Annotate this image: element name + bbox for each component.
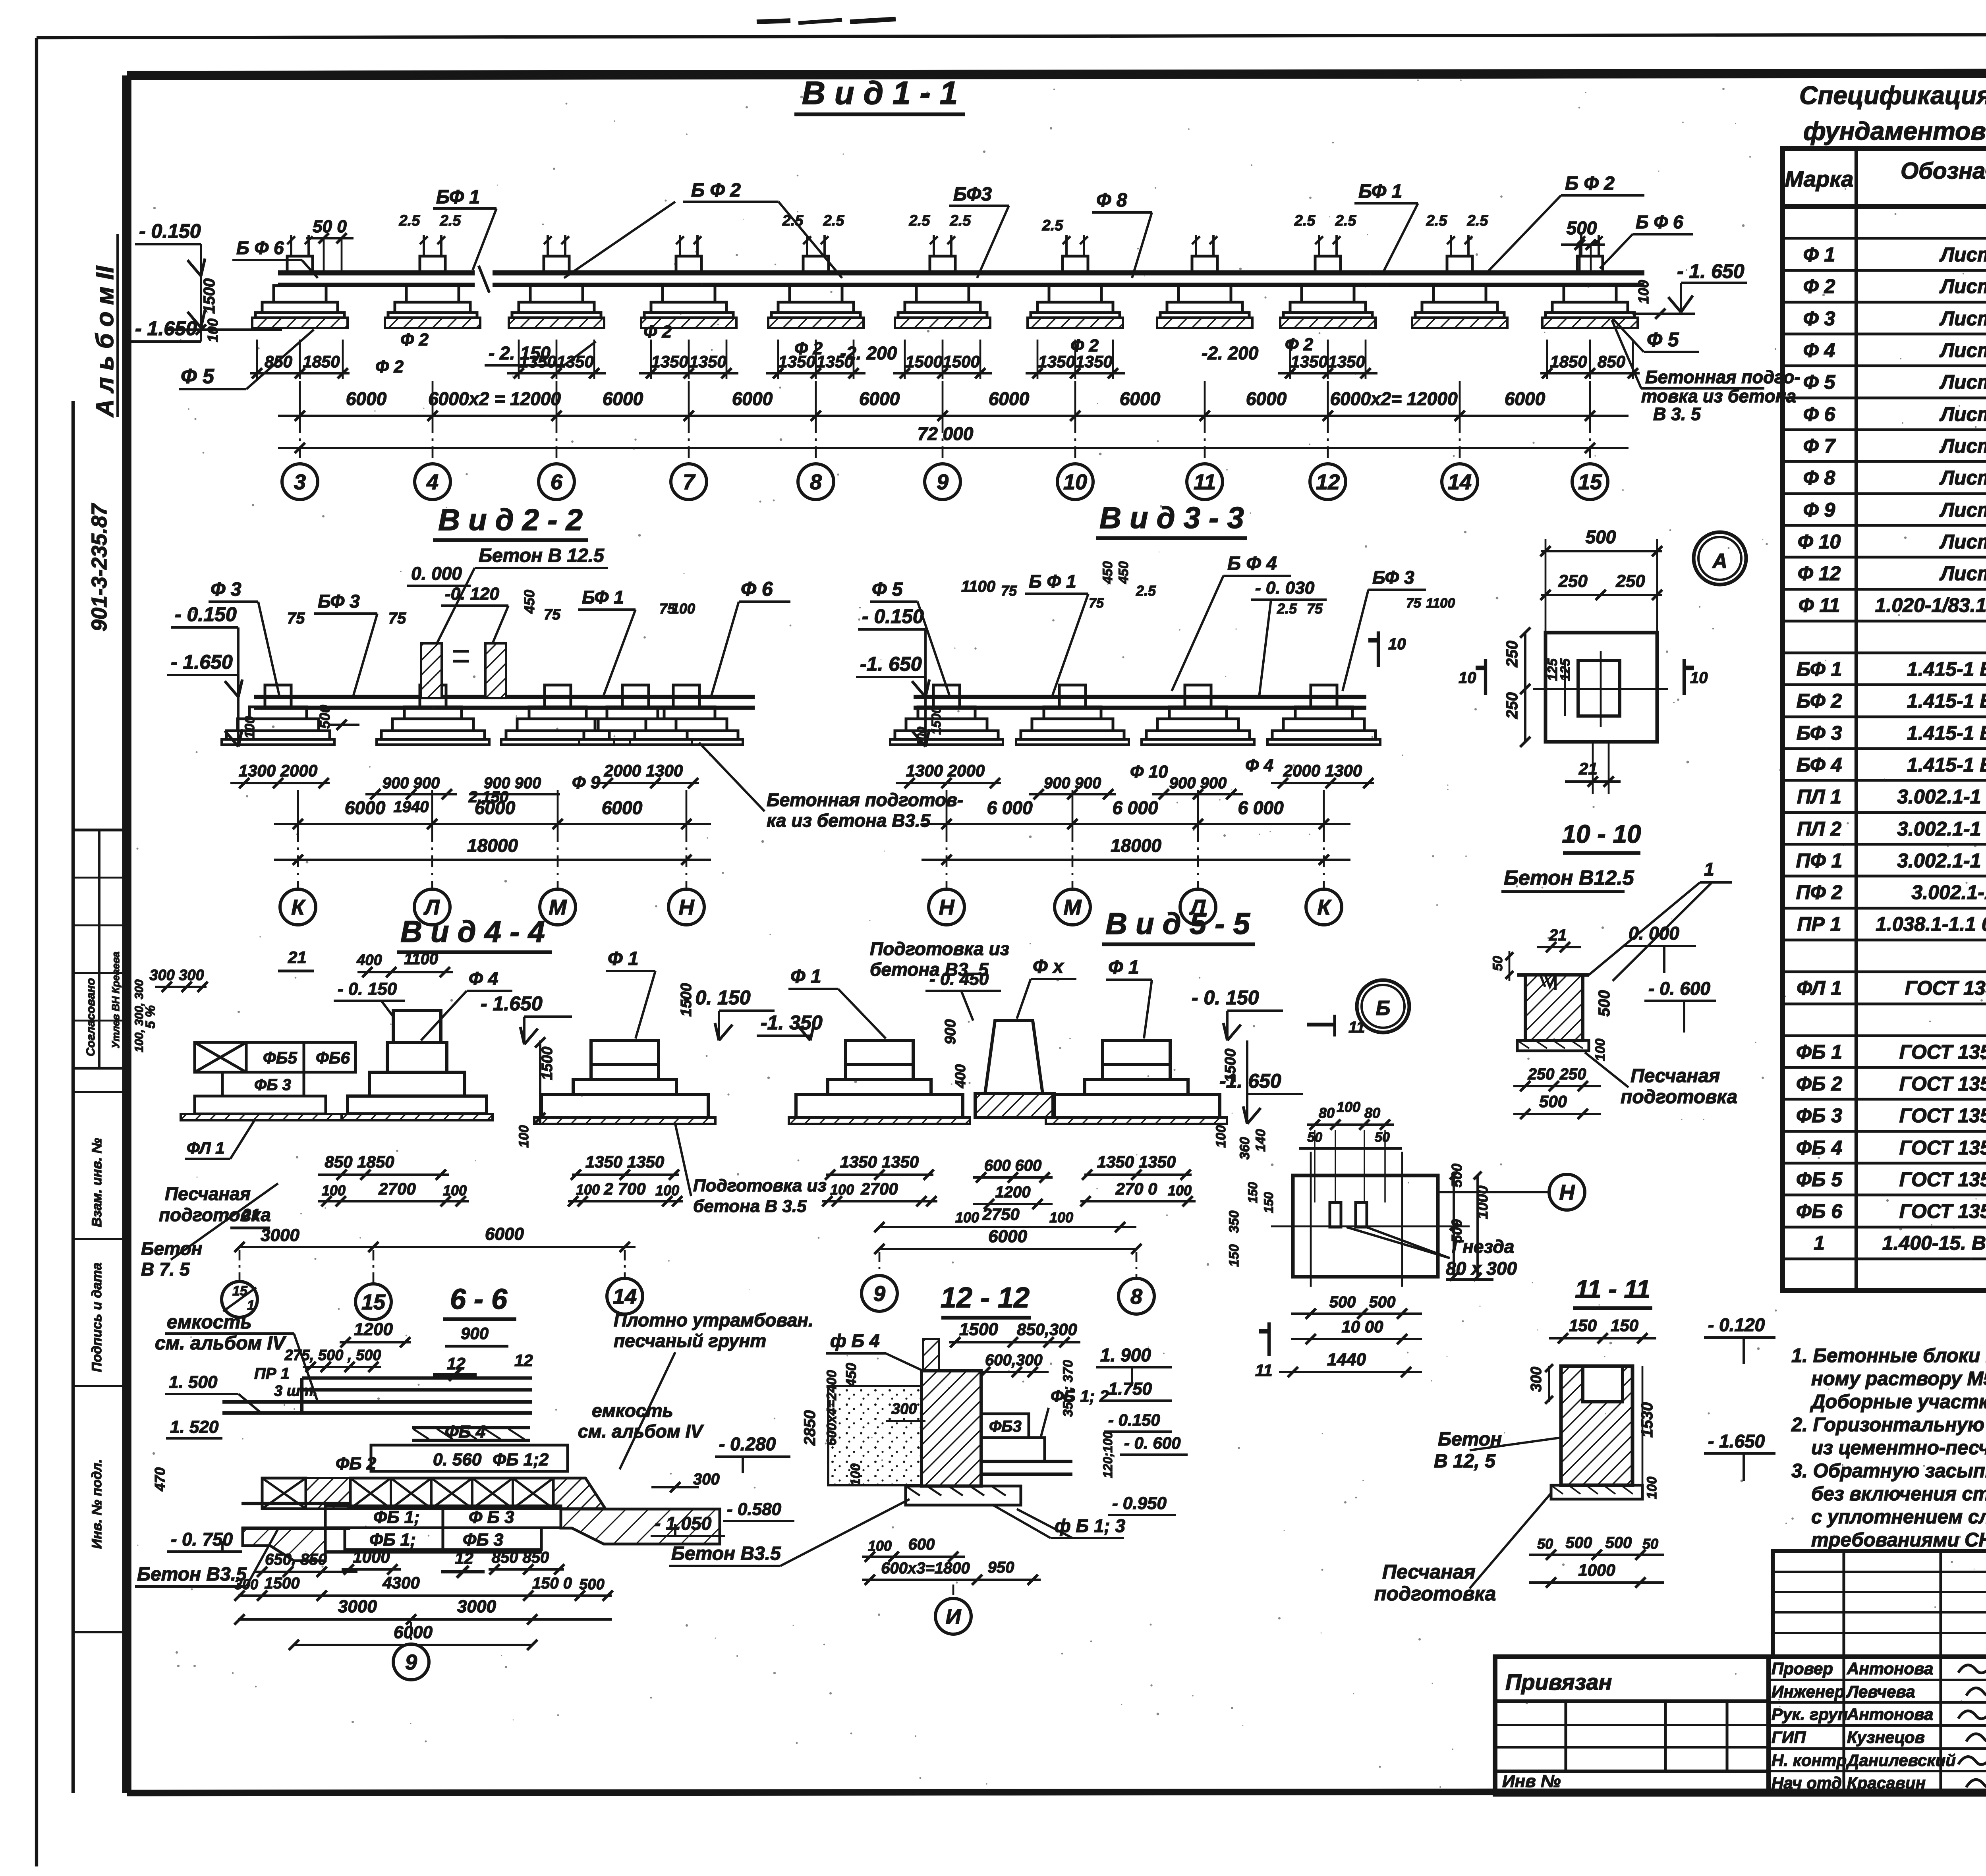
section 12-12 dotted backfill (828, 1386, 922, 1485)
section 6-6 right hatched wedge (553, 1478, 605, 1509)
plan detail 10-10 section marks (1484, 659, 1487, 695)
svg-text:15: 15 (1578, 470, 1602, 494)
svg-text:500: 500 (1586, 527, 1616, 547)
svg-text:ФБ6: ФБ6 (316, 1048, 350, 1067)
svg-text:100, 300, 300: 100, 300, 300 (133, 979, 146, 1052)
svg-text:- 0.150: - 0.150 (175, 603, 237, 625)
foundation cross-section axis 9 (1447, 256, 1472, 273)
svg-text:- 0. 030: - 0. 030 (1255, 578, 1315, 598)
svg-text:Б Ф 1: Б Ф 1 (1029, 571, 1076, 592)
svg-text:Ф 1: Ф 1 (1108, 957, 1139, 978)
svg-text:1350: 1350 (556, 352, 593, 371)
svg-text:подготовка: подготовка (1374, 1583, 1496, 1605)
svg-text:2700: 2700 (860, 1179, 898, 1198)
pit plan axis N circle (1438, 1191, 1549, 1193)
foundation cross-section axis 0 (287, 256, 313, 273)
svg-text:Ф 1: Ф 1 (608, 948, 639, 969)
svg-text:2. Горизонтальную гидроизоля: 2. Горизонтальную гидроизоляцию кирпичны… (1791, 1414, 1986, 1436)
svg-text:1.750: 1.750 (1108, 1379, 1152, 1399)
svg-text:1300 2000: 1300 2000 (239, 761, 318, 780)
svg-text:21: 21 (1549, 926, 1567, 944)
svg-text:Бетон В12.5: Бетон В12.5 (1504, 867, 1634, 890)
svg-text:900 900: 900 900 (1169, 774, 1227, 792)
svg-text:8: 8 (810, 470, 822, 494)
svg-text:ка из бетона В3.5: ка из бетона В3.5 (767, 810, 931, 831)
svg-text:ГОСТ 13579 - 78: ГОСТ 13579 - 78 (1899, 1137, 1986, 1159)
svg-text:Лист 7: Лист 7 (1940, 531, 1986, 553)
left margin stamp table (73, 830, 127, 1068)
svg-text:3.002.1-1 1-05-01: 3.002.1-1 1-05-01 (1897, 786, 1986, 808)
stepped foundation cross-section (265, 685, 291, 707)
svg-text:ФБ 1;2: ФБ 1;2 (493, 1450, 549, 1469)
svg-text:500: 500 (579, 1576, 604, 1593)
svg-text:300: 300 (1528, 1367, 1545, 1392)
svg-text:Ф 7: Ф 7 (1803, 435, 1836, 457)
svg-text:Б Ф 6: Б Ф 6 (1636, 212, 1683, 232)
svg-text:11: 11 (1194, 470, 1216, 494)
svg-text:6000: 6000 (485, 1224, 524, 1244)
svg-text:21: 21 (1578, 759, 1598, 778)
svg-text:100: 100 (655, 1182, 679, 1199)
stepped foundation cross-section (933, 685, 960, 707)
svg-text:4300: 4300 (382, 1573, 419, 1592)
svg-text:2000 1300: 2000 1300 (604, 761, 683, 780)
svg-text:из цементно-песчаного раство: из цементно-песчаного раствора состава 1… (1811, 1437, 1986, 1459)
svg-text:3000: 3000 (261, 1226, 299, 1245)
svg-text:600,300: 600,300 (985, 1351, 1043, 1369)
svg-text:1100: 1100 (1426, 596, 1455, 611)
svg-text:1.400-15. В1. 540-05: 1.400-15. В1. 540-05 (1882, 1232, 1986, 1254)
svg-text:В и д 1 - 1: В и д 1 - 1 (802, 75, 958, 111)
svg-text:Рук. груп: Рук. груп (1772, 1705, 1848, 1724)
svg-text:100: 100 (1337, 1099, 1360, 1115)
svg-text:В 7. 5: В 7. 5 (141, 1259, 190, 1280)
svg-text:1500: 1500 (678, 983, 695, 1017)
node circle A (1694, 532, 1746, 585)
svg-text:ГОСТ 13579 - 78: ГОСТ 13579 - 78 (1899, 1073, 1986, 1095)
svg-text:см. альбом IV: см. альбом IV (578, 1421, 704, 1442)
svg-text:600: 600 (908, 1536, 935, 1553)
svg-text:2.5: 2.5 (1294, 212, 1316, 229)
svg-text:250: 250 (1559, 1065, 1586, 1083)
svg-text:Красавин: Красавин (1847, 1774, 1926, 1792)
svg-text:2.5: 2.5 (1042, 217, 1064, 234)
section 12-12 right step blocks (981, 1414, 1029, 1438)
svg-text:18000: 18000 (1111, 835, 1161, 856)
svg-text:1350 1350: 1350 1350 (585, 1152, 665, 1171)
svg-text:Б Ф 6: Б Ф 6 (236, 237, 284, 258)
svg-text:ПФ 2: ПФ 2 (1796, 881, 1843, 903)
svg-text:1.415-1 Вып. 1: 1.415-1 Вып. 1 (1907, 722, 1986, 744)
svg-text:В и д 5 - 5: В и д 5 - 5 (1105, 907, 1250, 941)
svg-text:150: 150 (1262, 1192, 1276, 1213)
svg-text:1.038.1-1.1 090000-02: 1.038.1-1.1 090000-02 (1876, 913, 1986, 935)
svg-text:250: 250 (1503, 692, 1521, 719)
svg-text:Бетон В 12.5: Бетон В 12.5 (479, 545, 605, 566)
svg-text:БФ 2: БФ 2 (1797, 690, 1842, 712)
svg-text:9: 9 (937, 470, 949, 494)
svg-text:150: 150 (1246, 1182, 1260, 1203)
svg-text:1.415-1 Вып. 1: 1.415-1 Вып. 1 (1907, 690, 1986, 712)
svg-text:Ф 8: Ф 8 (1803, 467, 1835, 489)
svg-text:без включения строительного: без включения строительного мусора и рас… (1811, 1483, 1986, 1505)
node detail section below A (1517, 973, 1589, 977)
svg-text:10 - 10: 10 - 10 (1562, 820, 1641, 848)
svg-text:6000: 6000 (732, 388, 773, 409)
svg-text:600 600: 600 600 (984, 1157, 1042, 1174)
section 6-6 X-braced blocks row (350, 1478, 553, 1509)
svg-text:12: 12 (447, 1354, 466, 1373)
svg-text:650, 850: 650, 850 (265, 1551, 327, 1568)
svg-text:Антонова: Антонова (1847, 1659, 1933, 1678)
svg-text:Н: Н (939, 896, 955, 919)
svg-text:К: К (1317, 896, 1332, 919)
section 6-6 small hatch between (306, 1478, 350, 1509)
svg-text:Ф 5: Ф 5 (1803, 371, 1836, 393)
svg-text:бетона В 3.5: бетона В 3.5 (693, 1197, 807, 1216)
svg-text:100: 100 (848, 1463, 863, 1486)
svg-text:6000: 6000 (988, 1227, 1027, 1246)
svg-text:4: 4 (426, 470, 439, 494)
svg-text:100: 100 (671, 600, 695, 617)
svg-text:100: 100 (242, 716, 257, 739)
svg-text:100: 100 (443, 1182, 467, 1199)
svg-text:12 - 12: 12 - 12 (941, 1282, 1030, 1314)
svg-text:Лист 5: Лист 5 (1940, 403, 1986, 425)
svg-text:6000: 6000 (1120, 388, 1161, 409)
svg-text:100: 100 (322, 1182, 346, 1199)
svg-text:75: 75 (1001, 583, 1017, 599)
svg-text:450: 450 (1116, 561, 1131, 584)
svg-text:Н: Н (1559, 1181, 1575, 1204)
svg-text:1850: 1850 (1550, 352, 1587, 371)
level mark -1.650 left (131, 340, 201, 343)
svg-text:М: М (1064, 896, 1082, 919)
pit plan near axis N (1293, 1175, 1438, 1277)
svg-text:901-3-235.87: 901-3-235.87 (87, 503, 111, 631)
svg-text:450: 450 (843, 1363, 859, 1387)
svg-text:2750: 2750 (982, 1205, 1019, 1224)
svg-text:Ф 2: Ф 2 (643, 322, 672, 342)
svg-text:1350 1350: 1350 1350 (840, 1152, 919, 1171)
svg-text:1350: 1350 (689, 352, 726, 371)
svg-text:1.415-1 Вып. 1: 1.415-1 Вып. 1 (1907, 658, 1986, 680)
svg-text:Бетонная подго-: Бетонная подго- (1645, 367, 1800, 387)
svg-text:-2. 200: -2. 200 (1202, 343, 1259, 363)
svg-text:6: 6 (551, 470, 563, 494)
svg-text:400: 400 (952, 1064, 968, 1089)
svg-text:Привязан: Привязан (1505, 1669, 1612, 1695)
svg-text:1: 1 (247, 1298, 255, 1313)
circle B node marker (1357, 980, 1409, 1033)
svg-text:450: 450 (521, 590, 537, 614)
svg-text:ФБ 1;: ФБ 1; (369, 1530, 416, 1550)
pier 11-11 base slab (1551, 1485, 1642, 1499)
svg-text:900 900: 900 900 (484, 774, 541, 792)
svg-text:Ф 8: Ф 8 (1096, 190, 1127, 211)
svg-text:- 0. 150: - 0. 150 (338, 979, 397, 999)
svg-text:- 0.150: - 0.150 (139, 220, 201, 242)
svg-text:- 1. 650: - 1. 650 (1677, 260, 1745, 282)
svg-text:Обозначение: Обозначение (1901, 158, 1986, 184)
svg-text:75: 75 (287, 610, 305, 627)
svg-text:21: 21 (288, 948, 307, 967)
svg-text:Б: Б (1376, 997, 1391, 1020)
svg-text:ПР 1: ПР 1 (254, 1365, 290, 1382)
svg-text:120;100: 120;100 (1101, 1431, 1115, 1478)
axis circles view 2-2 (297, 830, 299, 890)
svg-text:1350: 1350 (651, 352, 688, 371)
svg-text:850: 850 (265, 352, 292, 371)
svg-text:100: 100 (1168, 1182, 1192, 1199)
stepped foundation cross-section (673, 685, 699, 707)
svg-text:с уплотнением слоями: с уплотнением слоями не более 200мм, в с… (1811, 1506, 1986, 1528)
svg-text:Взам. инв. №: Взам. инв. № (89, 1138, 104, 1227)
svg-text:Ф 3: Ф 3 (1803, 307, 1835, 330)
svg-text:Инв. № подл.: Инв. № подл. (89, 1459, 104, 1549)
svg-text:6000: 6000 (345, 797, 386, 818)
stepped foundation cross-section (1185, 685, 1211, 707)
svg-text:Ф 2: Ф 2 (400, 330, 429, 349)
overall 72000 dimension view 1-1 (278, 447, 1629, 449)
svg-text:150: 150 (1569, 1316, 1597, 1335)
svg-text:Ф х: Ф х (1033, 956, 1064, 977)
svg-text:В 12, 5: В 12, 5 (1434, 1451, 1496, 1472)
svg-text:Ф 2: Ф 2 (1070, 336, 1099, 355)
svg-text:3 шт.: 3 шт. (274, 1383, 317, 1399)
svg-text:Лист 7: Лист 7 (1940, 562, 1986, 585)
svg-text:6000: 6000 (603, 388, 643, 409)
foundation cross-section axis 6 (1063, 256, 1088, 273)
svg-text:100: 100 (955, 1209, 979, 1226)
svg-text:Ф 2: Ф 2 (1803, 275, 1835, 297)
svg-text:9: 9 (873, 1282, 885, 1306)
svg-text:ФБ 4: ФБ 4 (1796, 1137, 1842, 1159)
svg-text:ФБ 5: ФБ 5 (1796, 1168, 1843, 1191)
svg-text:1100: 1100 (961, 578, 995, 595)
svg-text:270 0: 270 0 (1115, 1179, 1157, 1198)
main 6000 dimension chain view 1-1 (278, 415, 1629, 417)
svg-text:ГИП: ГИП (1772, 1728, 1806, 1747)
hatched column pieces view 2-2 (421, 643, 442, 698)
svg-text:250: 250 (1615, 571, 1645, 591)
svg-text:2.5: 2.5 (1136, 583, 1156, 599)
svg-text:6 - 6: 6 - 6 (450, 1283, 508, 1315)
svg-text:Ф 2: Ф 2 (794, 339, 823, 358)
svg-text:БФ 4: БФ 4 (1797, 754, 1842, 776)
svg-text:1500: 1500 (201, 278, 218, 314)
section 6-6 single X block (262, 1478, 306, 1509)
svg-text:500: 500 (1566, 1534, 1592, 1552)
svg-text:150: 150 (1611, 1316, 1638, 1335)
svg-text:6 000: 6 000 (987, 797, 1033, 818)
svg-text:1.415-1 Вып. 1: 1.415-1 Вып. 1 (1907, 754, 1986, 776)
svg-text:Ф 10: Ф 10 (1798, 531, 1841, 553)
svg-text:Ф 6: Ф 6 (741, 578, 773, 600)
svg-text:300: 300 (892, 1401, 917, 1417)
svg-text:75: 75 (1307, 600, 1323, 617)
svg-text:- 0. 450: - 0. 450 (929, 969, 989, 989)
svg-text:900 900: 900 900 (383, 774, 440, 792)
pad width dims view 1-1 (250, 372, 350, 374)
beam line view 2-2 (254, 695, 755, 699)
svg-text:- 0. 150: - 0. 150 (1192, 986, 1259, 1009)
svg-text:10: 10 (1690, 669, 1708, 687)
svg-text:Ф 5: Ф 5 (872, 579, 903, 600)
svg-text:10 00: 10 00 (1341, 1317, 1383, 1336)
svg-text:ФБ 3: ФБ 3 (254, 1076, 291, 1094)
svg-text:2.5: 2.5 (950, 212, 972, 229)
svg-text:ГОСТ 13580-85: ГОСТ 13580-85 (1905, 977, 1986, 999)
svg-text:Плотно утрамбован.: Плотно утрамбован. (614, 1310, 813, 1330)
svg-text:6000: 6000 (859, 388, 900, 409)
svg-text:900 900: 900 900 (1044, 774, 1101, 792)
svg-text:-1. 650: -1. 650 (1219, 1070, 1281, 1092)
svg-text:11 - 11: 11 - 11 (1575, 1275, 1650, 1303)
stepped foundation cross-section (622, 685, 649, 707)
svg-text:2 700: 2 700 (603, 1179, 645, 1198)
stepped foundation cross-section (1059, 685, 1086, 707)
svg-text:ФБ3: ФБ3 (989, 1418, 1022, 1435)
svg-text:БФ 1: БФ 1 (1358, 181, 1402, 202)
svg-text:10: 10 (1063, 470, 1087, 494)
svg-text:1. 520: 1. 520 (170, 1417, 219, 1437)
svg-text:-0. 120: -0. 120 (445, 584, 500, 604)
stepped foundation pier (591, 1040, 659, 1064)
section 12-12 base slab (906, 1486, 1021, 1505)
dimension chain 6000 view 3-3 (922, 823, 1350, 825)
spec table frame (1783, 149, 1986, 1291)
svg-text:Лист 5: Лист 5 (1940, 371, 1986, 393)
svg-text:1100: 1100 (404, 950, 438, 968)
svg-text:1. 500: 1. 500 (169, 1372, 218, 1392)
svg-text:- 0.580: - 0.580 (727, 1500, 782, 1519)
svg-text:Бетон: Бетон (141, 1238, 202, 1259)
svg-text:- 1.050: - 1.050 (655, 1513, 712, 1534)
svg-text:850,300: 850,300 (1017, 1320, 1077, 1339)
svg-text:100: 100 (1644, 1476, 1660, 1499)
svg-text:1200: 1200 (995, 1183, 1031, 1201)
svg-text:Ф 3: Ф 3 (211, 579, 241, 600)
svg-text:12: 12 (514, 1351, 533, 1370)
svg-text:10: 10 (1459, 669, 1476, 687)
svg-text:300: 300 (693, 1471, 720, 1488)
view 5-5 trapezoid footing (985, 1021, 1043, 1094)
svg-text:12: 12 (455, 1549, 473, 1567)
svg-text:Песчаная: Песчаная (1382, 1561, 1476, 1583)
foundation cross-section axis 4 (803, 256, 829, 273)
svg-text:Б Ф 2: Б Ф 2 (1565, 173, 1615, 194)
svg-text:2.5: 2.5 (823, 212, 845, 229)
spec table header row (1783, 204, 1986, 209)
title block upper small table (1773, 1551, 1986, 1657)
svg-text:ПР 1: ПР 1 (1797, 913, 1841, 935)
svg-text:БФ 3: БФ 3 (318, 591, 360, 612)
svg-text:Утлев ВН Креаева: Утлев ВН Креаева (110, 952, 122, 1048)
svg-text:- 0.280: - 0.280 (719, 1434, 776, 1454)
svg-text:0. 560: 0. 560 (433, 1450, 482, 1469)
svg-text:1500: 1500 (539, 1046, 556, 1080)
svg-text:А л ь б о м II: А л ь б о м II (91, 265, 119, 418)
svg-text:3.002.1-1 1-12-01: 3.002.1-1 1-12-01 (1897, 849, 1986, 872)
plan detail 10-10 square (1546, 633, 1657, 742)
svg-text:БФ 1: БФ 1 (1797, 658, 1842, 680)
svg-text:100: 100 (915, 727, 928, 747)
svg-text:БФ 1: БФ 1 (582, 587, 624, 608)
svg-text:900: 900 (942, 1019, 959, 1044)
foundation cross-section axis 3 (676, 256, 701, 273)
section 6-6 beam row FB1-2 (371, 1445, 568, 1471)
svg-text:Н: Н (679, 896, 695, 919)
svg-text:50: 50 (1490, 956, 1505, 971)
svg-text:3.002.1-1 1-07-01: 3.002.1-1 1-07-01 (1897, 818, 1986, 840)
svg-text:- 2. 150: - 2. 150 (489, 343, 551, 363)
svg-text:250: 250 (1528, 1065, 1555, 1083)
sheet outer border (37, 34, 1986, 38)
svg-text:1000: 1000 (1578, 1561, 1615, 1579)
svg-text:Бетонная подготов-: Бетонная подготов- (767, 789, 963, 810)
svg-text:150 0: 150 0 (532, 1575, 572, 1592)
svg-text:500: 500 (1329, 1293, 1356, 1311)
svg-text:75: 75 (1089, 596, 1104, 611)
ground line left (167, 328, 282, 331)
svg-text:2.5: 2.5 (440, 212, 462, 229)
svg-text:- 1.650: - 1.650 (481, 992, 543, 1015)
svg-text:Бетон В3.5: Бетон В3.5 (671, 1543, 781, 1564)
svg-text:6 000: 6 000 (1238, 797, 1284, 818)
svg-text:350: 350 (1227, 1210, 1242, 1233)
svg-text:Песчаная: Песчаная (165, 1183, 251, 1204)
svg-text:9: 9 (405, 1650, 417, 1674)
svg-text:1500: 1500 (265, 1575, 300, 1592)
section 12-12 hatched column top (923, 1339, 939, 1371)
svg-text:6000: 6000 (1505, 388, 1546, 409)
svg-text:12: 12 (1316, 470, 1340, 494)
svg-text:ф Б 4: ф Б 4 (830, 1330, 879, 1351)
stepped foundation cross-section (420, 685, 446, 707)
svg-text:500: 500 (1369, 1293, 1396, 1311)
svg-text:ПЛ 1: ПЛ 1 (1797, 786, 1841, 808)
svg-text:950: 950 (988, 1559, 1014, 1576)
svg-text:подготовка: подготовка (1621, 1087, 1737, 1108)
svg-text:50 0: 50 0 (313, 217, 347, 236)
svg-text:75: 75 (544, 606, 561, 623)
svg-text:ГОСТ 13579 - 78: ГОСТ 13579 - 78 (1899, 1041, 1986, 1063)
svg-text:Ф 11: Ф 11 (1799, 594, 1840, 616)
svg-text:500: 500 (1449, 1164, 1465, 1187)
svg-text:Ф 2: Ф 2 (1285, 335, 1314, 354)
svg-text:140: 140 (1253, 1129, 1268, 1152)
svg-text:ФБ 2: ФБ 2 (1796, 1073, 1842, 1095)
svg-text:100: 100 (830, 1181, 854, 1198)
svg-text:72 000: 72 000 (918, 423, 974, 444)
svg-text:БФ 3: БФ 3 (1797, 722, 1842, 744)
svg-text:1350: 1350 (1328, 352, 1365, 371)
svg-text:Данилевский: Данилевский (1846, 1751, 1956, 1770)
svg-text:11: 11 (1255, 1361, 1273, 1380)
svg-text:Лист 5: Лист 5 (1940, 339, 1986, 361)
section 6-6 block rows FB1 FB3 (325, 1506, 561, 1528)
svg-text:см. альбом IV: см. альбом IV (155, 1333, 287, 1354)
svg-text:6000: 6000 (989, 388, 1030, 409)
overall 18000 view 3-3 (922, 859, 1350, 861)
svg-text:500: 500 (1605, 1534, 1632, 1552)
svg-text:300 300: 300 300 (149, 967, 204, 984)
svg-text:Доборные участки и шпонк: Доборные участки и шпонки заделывать бет… (1810, 1391, 1986, 1413)
svg-text:Песчаная: Песчаная (1631, 1065, 1720, 1087)
svg-text:Инженер: Инженер (1772, 1682, 1845, 1701)
axis circle 9 under 6-6 (410, 1622, 412, 1642)
